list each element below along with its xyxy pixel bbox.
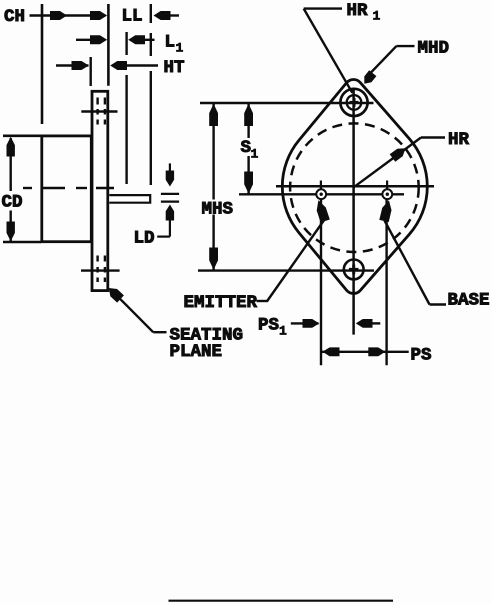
extension line emitter lead	[320, 199, 322, 365]
emitter lead pin	[316, 181, 326, 200]
dimension CH	[4, 7, 107, 27]
label EMITTER + leader	[184, 200, 330, 313]
label BASE + leader	[379, 200, 489, 310]
extension line cap-top left	[41, 4, 44, 124]
extension tick seating-plane (HT left)	[89, 57, 91, 86]
extension line flange-right	[107, 4, 110, 86]
svg-text:1: 1	[176, 41, 184, 56]
svg-text:HR: HR	[448, 130, 470, 150]
extension line lead-tip (dashed top)	[150, 4, 152, 185]
svg-text:HT: HT	[164, 58, 185, 78]
seating plane leader	[109, 288, 167, 332]
svg-text:L: L	[165, 33, 176, 53]
cap centerline (dashed)	[23, 187, 114, 189]
horizontal centerline	[276, 185, 434, 188]
label HR + leader	[354, 130, 470, 187]
top hole centerline tick	[81, 110, 117, 112]
cap-bottom extension line	[3, 241, 41, 244]
base lead pin	[382, 181, 392, 200]
bottom hole centerline tick	[81, 269, 120, 271]
dimension MHS	[202, 104, 234, 270]
vertical centerline	[352, 88, 355, 335]
transistor cap (side view)	[42, 136, 92, 242]
label HR1 + leader	[304, 1, 381, 93]
footer rule	[169, 600, 394, 602]
flange bottom mounting hole (hidden, dashed)	[98, 256, 105, 283]
svg-text:CH: CH	[4, 7, 25, 27]
can outline (dashed circle)	[290, 123, 419, 252]
cap-top extension line	[3, 135, 41, 138]
extension line L1 tick	[125, 32, 127, 184]
svg-text:PS: PS	[258, 316, 279, 336]
svg-text:CD: CD	[2, 193, 23, 213]
dimension PS1	[258, 316, 380, 339]
svg-text:PS: PS	[411, 346, 432, 366]
mounting-hole top extension line	[200, 102, 374, 104]
mounting flange (side view)	[92, 91, 108, 290]
bottom mounting hole	[344, 260, 364, 280]
svg-text:MHD: MHD	[418, 39, 450, 59]
svg-text:MHS: MHS	[202, 200, 234, 220]
dimension LD	[134, 163, 180, 248]
svg-text:LD: LD	[134, 229, 155, 249]
svg-text:EMITTER: EMITTER	[184, 293, 258, 313]
dimension S1	[241, 104, 259, 194]
mounting-hole bottom extension line	[198, 269, 374, 271]
label MHD + leader	[364, 39, 449, 84]
svg-text:HR: HR	[347, 1, 369, 21]
package outline (bottom view)	[282, 80, 427, 294]
lead chord line	[239, 193, 404, 195]
dimension HT	[56, 58, 185, 78]
svg-text:1: 1	[373, 9, 381, 24]
extension line base lead	[385, 199, 387, 365]
svg-text:PLANE: PLANE	[170, 342, 223, 362]
dimension PS	[321, 346, 431, 366]
label SEATING PLANE	[170, 326, 244, 363]
top mounting hole	[340, 89, 367, 116]
svg-text:1: 1	[279, 324, 287, 339]
lead (side view)	[109, 195, 150, 203]
flange top mounting hole (hidden, dashed)	[98, 98, 105, 125]
svg-text:LL: LL	[122, 7, 143, 27]
svg-text:1: 1	[251, 147, 259, 162]
dimension L1	[76, 33, 184, 56]
dimension LL	[122, 7, 180, 27]
dimension CD	[2, 137, 23, 241]
svg-text:BASE: BASE	[448, 291, 490, 311]
svg-text:S: S	[241, 138, 252, 158]
